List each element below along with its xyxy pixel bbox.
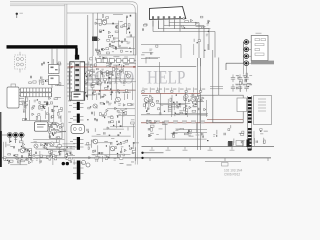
- yoke drive parts (cluster): [207, 125, 245, 147]
- wire (vertical x93): [92, 13, 94, 56]
- bottom rail components: [151, 147, 153, 150]
- wire (vertical x87.8): [87, 15, 89, 96]
- transformer T501 (core bars): [72, 92, 85, 100]
- left lower parts (cluster): [49, 122, 66, 139]
- speaker/AV module (box): [251, 36, 268, 61]
- connector CN801 (trapezoid header): [150, 7, 186, 20]
- filter block (small box): [50, 125, 63, 139]
- secondary parts (cluster): [87, 101, 135, 138]
- wire (rails below box): [196, 58, 198, 150]
- wire (line-filter pins): [19, 89, 24, 91]
- inner section border (vertical divider pair at x~65): [64, 4, 66, 158]
- ladder feed parts (cluster): [29, 76, 64, 86]
- IC501 SMPS regulator: [70, 62, 85, 100]
- frame left parts (cluster): [141, 24, 160, 64]
- wire (red trace y119): [207, 119, 243, 121]
- wire (thick mains bus): [7, 45, 78, 48]
- wire (pins to caps): [242, 63, 244, 74]
- board edge (left dark strip): [0, 112, 1, 132]
- wire (deflection box top-left ext): [197, 94, 213, 96]
- resistor array RA1: [21, 88, 52, 97]
- connector CN802 (4 black ring pins): [242, 42, 244, 63]
- left mid parts (cluster): [21, 97, 62, 122]
- wire (harness from CN801): [168, 21, 170, 23]
- wire (vertical rails x197-201): [196, 58, 198, 66]
- connector P101 (3 black pins): [2, 134, 25, 136]
- wire (bottom rails): [142, 146, 275, 148]
- wire (mains bus drop to switch): [75, 48, 78, 55]
- vertical drive parts (cluster): [142, 93, 208, 117]
- optocoupler IC601: [82, 161, 86, 165]
- CRT pcb parts (cluster): [254, 129, 268, 146]
- SMPS primary parts (cluster): [85, 56, 136, 102]
- transformer winding stubs: [73, 103, 77, 105]
- wire (red link y67): [68, 66, 137, 68]
- node A (mains input dot top-left): [16, 13, 18, 15]
- CRT socket strip: [248, 97, 252, 99]
- junction dots (secondary gnd): [62, 162, 65, 165]
- wire (relay feeds): [25, 120, 48, 122]
- bottom-right label text: [224, 169, 242, 177]
- snubber block box: [98, 13, 137, 55]
- bridge D501 (dark block): [92, 37, 98, 42]
- wire (IC pin fanout): [85, 64, 95, 66]
- line filter L1 (tall box): [7, 87, 19, 108]
- wire (red trace y90): [93, 89, 135, 91]
- wire (red trace y123): [141, 122, 243, 124]
- top harness parts (cluster): [181, 16, 210, 55]
- wire (block A top feed): [67, 12, 98, 14]
- grey bar (photo strip): [251, 61, 274, 65]
- resistor row R5xx: [97, 59, 102, 63]
- wire (red trace y93): [141, 92, 200, 94]
- svg-text:C906 R912: C906 R912: [224, 173, 240, 177]
- svg-text:HELP: HELP: [147, 68, 186, 89]
- mains switch block S801: [51, 49, 53, 65]
- video out parts (cluster): [147, 120, 207, 140]
- watermark ELECTRO HELP: [67, 68, 186, 89]
- bias parts row (y88-92): [142, 88, 144, 93]
- sheet border (double rounded frame, top and right edges): [10, 2, 138, 165]
- wire (third top line): [10, 5, 65, 7]
- CRT board box: [254, 96, 272, 125]
- primary snubber parts (cluster): [95, 15, 135, 55]
- snubber parts over watermark: [97, 71, 113, 85]
- bottom left dense parts (cluster): [4, 139, 76, 165]
- focus block: [237, 98, 247, 112]
- audio parts (cluster): [235, 73, 252, 92]
- deflection box: [213, 95, 243, 122]
- audio caps C6xx: [231, 77, 235, 79]
- degauss parts (cluster): [42, 59, 61, 74]
- relay RL1 (rounded box): [35, 122, 49, 131]
- wire (vertical x159.5): [159, 62, 161, 93]
- wire (vert drive grid): [141, 114, 207, 116]
- posistor TH1 (dashed outline): [15, 55, 26, 69]
- label row (video out): [146, 120, 151, 123]
- wire (mid horizontal y66): [138, 65, 197, 67]
- bottom mid parts (cluster): [85, 138, 139, 162]
- fuse F1 (black block): [75, 55, 79, 60]
